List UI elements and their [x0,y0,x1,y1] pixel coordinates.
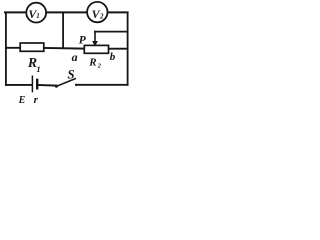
wire bottom left (battery left lead) [6,84,32,86]
svg-text:2: 2 [97,63,101,70]
wire wiper P to right border [95,31,128,33]
wiper arrowhead [92,41,98,46]
svg-text:b: b [110,51,116,63]
wire R1 left lead [6,47,21,49]
wire left border [5,12,7,85]
svg-text:1: 1 [36,64,40,74]
voltmeter V2 circle [87,2,107,22]
svg-text:r: r [34,94,39,106]
wire R2 terminal b to right border [108,48,127,50]
node A vertical (junction between V1 and V2 down to R1/R2 wire) [62,12,64,48]
svg-text:S: S [67,67,74,82]
battery short plate [36,80,38,88]
svg-text:2: 2 [99,13,104,21]
svg-text:a: a [72,50,78,64]
resistor R1 [20,43,44,51]
wire top [5,11,128,13]
switch right terminal dot [75,84,77,86]
wiper arrow shaft [94,32,96,42]
wire bottom right (switch to corner) [76,84,128,86]
switch S blade [57,79,75,86]
rheostat R2 body [84,45,108,53]
svg-text:R: R [88,56,96,68]
voltmeter V1 circle [26,3,46,23]
svg-text:P: P [79,34,87,46]
battery long plate (E) [31,76,33,91]
wire right border [127,12,129,85]
svg-text:E: E [18,95,26,106]
svg-text:1: 1 [36,12,40,20]
wire battery to switch [38,84,57,87]
wire R1 right lead to R2 terminal a [44,47,85,50]
switch pivot dot [55,85,58,88]
